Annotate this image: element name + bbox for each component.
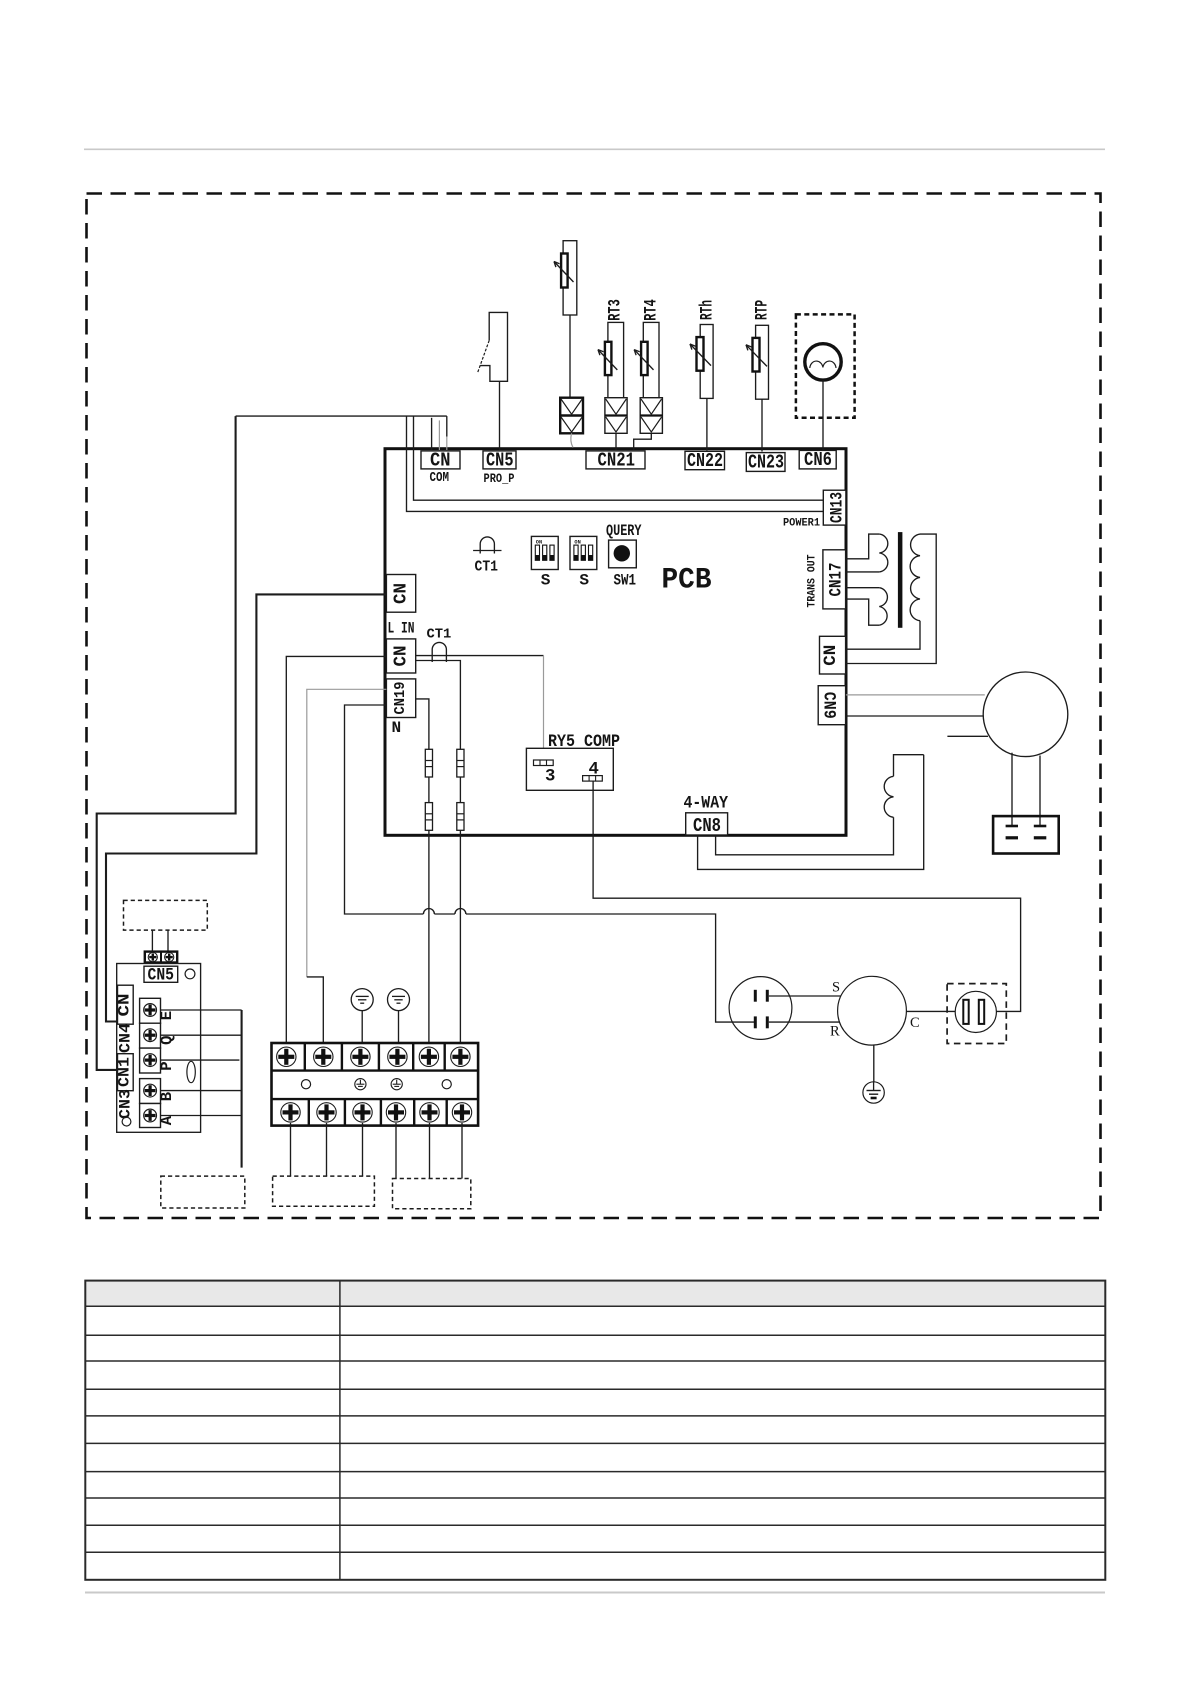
indoor unit dashed box xyxy=(273,1176,375,1206)
earth symbol above screw3 xyxy=(351,989,373,1011)
RY5 pin 3 connector xyxy=(534,760,554,766)
fan capacitor left plates xyxy=(1006,825,1018,828)
wire CN9 to fan motor xyxy=(846,715,984,717)
wire fan motor to capacitor right xyxy=(1039,756,1041,827)
svg-text:PRO_P: PRO_P xyxy=(484,471,515,486)
connector CN22 xyxy=(685,450,725,472)
terminal block band lines xyxy=(272,1069,479,1071)
wire P stub xyxy=(161,1059,240,1061)
svg-text:CN5: CN5 xyxy=(148,966,175,986)
svg-text:RT4: RT4 xyxy=(643,299,662,321)
svg-text:CT1: CT1 xyxy=(475,560,499,576)
wire RY5 pin4 to overload protector xyxy=(593,781,1021,1011)
wire secondary top to right rail xyxy=(846,534,936,663)
svg-text:CN9: CN9 xyxy=(819,692,838,719)
fan motor symbol M xyxy=(805,344,841,380)
svg-text:CN: CN xyxy=(821,645,841,666)
wire splice to terminal screw6 xyxy=(459,830,461,1046)
svg-text:SW1: SW1 xyxy=(614,572,637,590)
connector CN19 xyxy=(386,679,415,718)
transformer secondary winding xyxy=(910,534,920,621)
svg-text:ON: ON xyxy=(536,539,542,545)
wire stub to fan motor xyxy=(947,735,988,737)
wire primary lower top feed xyxy=(846,587,879,589)
svg-text:CN22: CN22 xyxy=(687,450,723,472)
wire RT3 to CN21 xyxy=(615,433,617,450)
overload protector dashed box xyxy=(947,984,1006,1044)
middle band hole circle left xyxy=(301,1080,310,1089)
svg-text:CN13: CN13 xyxy=(829,492,848,523)
sub-board outline xyxy=(117,964,201,1133)
capacitor R plates xyxy=(755,1016,767,1028)
connector CN (left edge upper) xyxy=(386,575,415,613)
wire CN17 to primary top feed xyxy=(846,534,879,559)
remote controller dashed box xyxy=(161,1176,245,1208)
svg-text:4-WAY: 4-WAY xyxy=(684,794,729,814)
bottom rule line xyxy=(85,1592,1105,1594)
svg-text:CN17: CN17 xyxy=(828,563,847,597)
svg-text:CN1: CN1 xyxy=(116,1057,134,1087)
wire CN upper-left to sub-board CN xyxy=(106,594,386,1021)
wire gray into CN COM connector xyxy=(438,420,440,450)
wire CN9 gray to fan motor xyxy=(846,694,985,696)
screw terminal P xyxy=(140,1048,161,1073)
PCB outline xyxy=(385,449,846,836)
svg-text:E: E xyxy=(158,1011,176,1020)
wires bottom screws down xyxy=(290,1123,292,1176)
connector RT3 plug pair xyxy=(605,398,627,434)
fan motor xyxy=(983,672,1068,757)
transformer core bar xyxy=(898,532,903,628)
dashed enclosure border xyxy=(87,194,1101,1219)
svg-text:PCB: PCB xyxy=(662,564,712,597)
hole circle bottom left xyxy=(122,1117,131,1126)
wire vertical to CN13 upper xyxy=(414,416,824,500)
svg-text:Q: Q xyxy=(158,1036,176,1045)
svg-text:TRANS OUT: TRANS OUT xyxy=(807,554,819,607)
svg-text:R: R xyxy=(830,1024,840,1040)
svg-text:CN5: CN5 xyxy=(486,450,514,472)
connector CN (sub-board) xyxy=(116,985,134,1024)
wires dashed box to CN5 screws xyxy=(151,930,153,952)
wire B to bus xyxy=(161,1090,242,1092)
wire fan motor to capacitor left xyxy=(1011,753,1013,826)
svg-text:CN21: CN21 xyxy=(598,450,636,472)
capacitor S plates xyxy=(755,990,767,1002)
svg-text:RT3: RT3 xyxy=(607,299,626,321)
wire primary lower bottom feed xyxy=(846,599,879,625)
bottom screws 1-6 xyxy=(281,1103,300,1122)
svg-text:CN: CN xyxy=(430,450,451,472)
svg-text:B: B xyxy=(158,1091,176,1101)
DIP switch S1 xyxy=(531,536,558,589)
current transformer CT1 lower xyxy=(427,628,452,663)
bus wire down to remote box xyxy=(241,1010,243,1168)
svg-text:S: S xyxy=(832,980,840,996)
middle band earth small left xyxy=(355,1079,366,1090)
DIP switch S2 xyxy=(570,536,597,589)
svg-text:C: C xyxy=(910,1015,920,1031)
wire secondary bottom to CN xyxy=(846,621,920,650)
wire RT0 pigtail xyxy=(571,433,573,447)
relay RY5 box xyxy=(526,748,613,790)
svg-text:CN19: CN19 xyxy=(393,682,409,715)
wire hop at screw6 drop xyxy=(455,909,466,915)
terminal block outline xyxy=(272,1043,479,1126)
svg-text:CN: CN xyxy=(391,583,412,604)
overload protector xyxy=(955,991,996,1032)
wire CN lower right to RY5 pin3 xyxy=(416,655,544,657)
wire CN8 left pin to 4way coil right xyxy=(698,755,924,870)
svg-text:CN23: CN23 xyxy=(748,452,784,474)
wire CN8 right pin to 4way coil left xyxy=(716,817,894,855)
current transformer CT1 upper xyxy=(473,537,501,576)
wire bundle corner down left side xyxy=(97,416,236,1070)
svg-text:QUERY: QUERY xyxy=(606,522,642,540)
wire CN6 motor to connector xyxy=(822,380,824,450)
wire RTh to CN22 xyxy=(706,398,708,450)
thermistor sensor RT0 loop xyxy=(554,241,577,315)
svg-text:CN3: CN3 xyxy=(117,1089,135,1119)
wire RTp to CN23 xyxy=(761,399,763,451)
protector switch symbol above CN5 xyxy=(477,312,507,381)
svg-text:S: S xyxy=(541,572,551,590)
svg-text:A: A xyxy=(158,1115,176,1125)
svg-text:POWER1: POWER1 xyxy=(783,518,820,530)
hole circle right of CN5 xyxy=(185,969,195,979)
svg-text:CN4: CN4 xyxy=(117,1023,135,1053)
wire primary upper bottom feed xyxy=(846,571,879,573)
wire RT4 to CN21 xyxy=(634,433,652,450)
wire RT0 to connector xyxy=(569,315,571,398)
svg-text:CN6: CN6 xyxy=(804,449,832,471)
svg-text:CT1: CT1 xyxy=(427,628,452,643)
bottom table xyxy=(85,1281,1105,1580)
connector CN9 xyxy=(818,686,845,725)
splice connector pair upper xyxy=(425,749,432,777)
svg-text:COM: COM xyxy=(430,471,450,486)
svg-text:CN: CN xyxy=(391,646,412,667)
wire into CN COM connector xyxy=(431,418,433,450)
connector CN13 xyxy=(823,490,847,525)
RY5 pin 4 connector xyxy=(583,776,603,782)
svg-text:N: N xyxy=(392,719,402,737)
wire A to bus xyxy=(161,1115,242,1117)
connector CN (COM) xyxy=(421,450,460,472)
screw terminal E xyxy=(140,998,161,1023)
CN5 screw pair xyxy=(145,952,177,963)
connector CN6 xyxy=(799,449,836,471)
thermistor RTh xyxy=(690,300,718,398)
wire CN lower right to splice chain xyxy=(416,661,461,750)
svg-text:CN: CN xyxy=(116,994,134,1017)
fan capacitor right plates xyxy=(1034,825,1047,828)
wire capacitor to compressor S xyxy=(769,995,841,997)
svg-text:CN8: CN8 xyxy=(693,815,721,837)
wire CN5 pin up to protector switch xyxy=(499,381,501,450)
svg-text:RTP: RTP xyxy=(754,300,773,320)
svg-text:S: S xyxy=(579,572,589,590)
svg-text:ON: ON xyxy=(574,539,580,545)
earth ground below compressor xyxy=(863,1082,884,1103)
fan capacitor box xyxy=(993,816,1059,853)
screw terminal A xyxy=(140,1104,161,1128)
splice connector pair lower xyxy=(425,803,432,831)
wire CN lower-left to terminal screw1 xyxy=(286,656,386,1046)
wire CN19 gray to terminal screw2 xyxy=(307,689,387,977)
connector RT4 plug pair xyxy=(640,398,662,434)
wire hop at screw5 drop xyxy=(423,909,434,915)
svg-text:L IN: L IN xyxy=(388,620,415,638)
wire between splices xyxy=(428,777,430,803)
middle band hole circle right xyxy=(442,1080,451,1089)
wire vertical to CN13 lower xyxy=(407,416,824,511)
svg-text:3: 3 xyxy=(545,768,555,787)
connector RT0 plug pair xyxy=(560,398,583,434)
fan motor CN6 dashed box xyxy=(796,314,855,417)
thermistor RT3 xyxy=(598,299,626,397)
connector CN (trans secondary) xyxy=(820,636,846,674)
earth symbol above screw4 xyxy=(388,989,410,1011)
wire E to bus xyxy=(161,1009,242,1011)
top rule line xyxy=(84,148,1105,150)
wire compressor to earth xyxy=(873,1045,875,1082)
connector CN5 (PRO_P) xyxy=(483,450,516,472)
transformer primary winding upper xyxy=(879,534,888,572)
compressor run capacitor xyxy=(729,977,792,1040)
screw terminal B xyxy=(140,1079,161,1104)
wire earth to screw3 xyxy=(361,1011,363,1046)
wire compressor C to overload xyxy=(906,1010,955,1012)
wire N to compressor capacitor xyxy=(345,705,424,914)
transformer primary winding lower xyxy=(879,588,887,626)
wire Q to bus xyxy=(161,1034,242,1036)
sub-board remote dashed box xyxy=(124,900,208,930)
svg-text:P: P xyxy=(158,1061,176,1070)
middle band earth small right xyxy=(391,1079,402,1090)
top screws 1-6 xyxy=(277,1047,296,1066)
thermistor RTp xyxy=(746,300,773,399)
wire CN19 right to splice chain xyxy=(416,699,429,749)
connector CN5 label box xyxy=(144,966,178,986)
wire bundle top-left horizontal xyxy=(236,415,447,417)
wire splice to terminal screw5 xyxy=(428,830,430,1046)
screw terminal Q xyxy=(140,1023,161,1048)
top row cell dividers xyxy=(305,1043,445,1071)
connector CN8 xyxy=(686,813,728,837)
thermistor RT4 xyxy=(634,299,661,397)
connector CN23 xyxy=(746,452,785,474)
compressor motor xyxy=(838,976,907,1045)
wire capacitor to compressor R xyxy=(769,1021,840,1023)
connector CN1 (sub-board) xyxy=(116,1054,134,1091)
svg-text:RTh: RTh xyxy=(699,300,718,320)
connector CN21 xyxy=(586,450,645,472)
mounting ellipse xyxy=(187,1061,195,1082)
push button SW1 xyxy=(609,540,637,589)
connector CN17 xyxy=(823,550,847,609)
bottom row cell dividers xyxy=(309,1099,447,1126)
4-way valve coil xyxy=(884,755,923,818)
wire earth to screw4 xyxy=(398,1011,400,1046)
connector CN (left edge lower) xyxy=(386,639,415,673)
wire bundle right end drop xyxy=(446,416,448,436)
power supply dashed box xyxy=(393,1179,471,1209)
